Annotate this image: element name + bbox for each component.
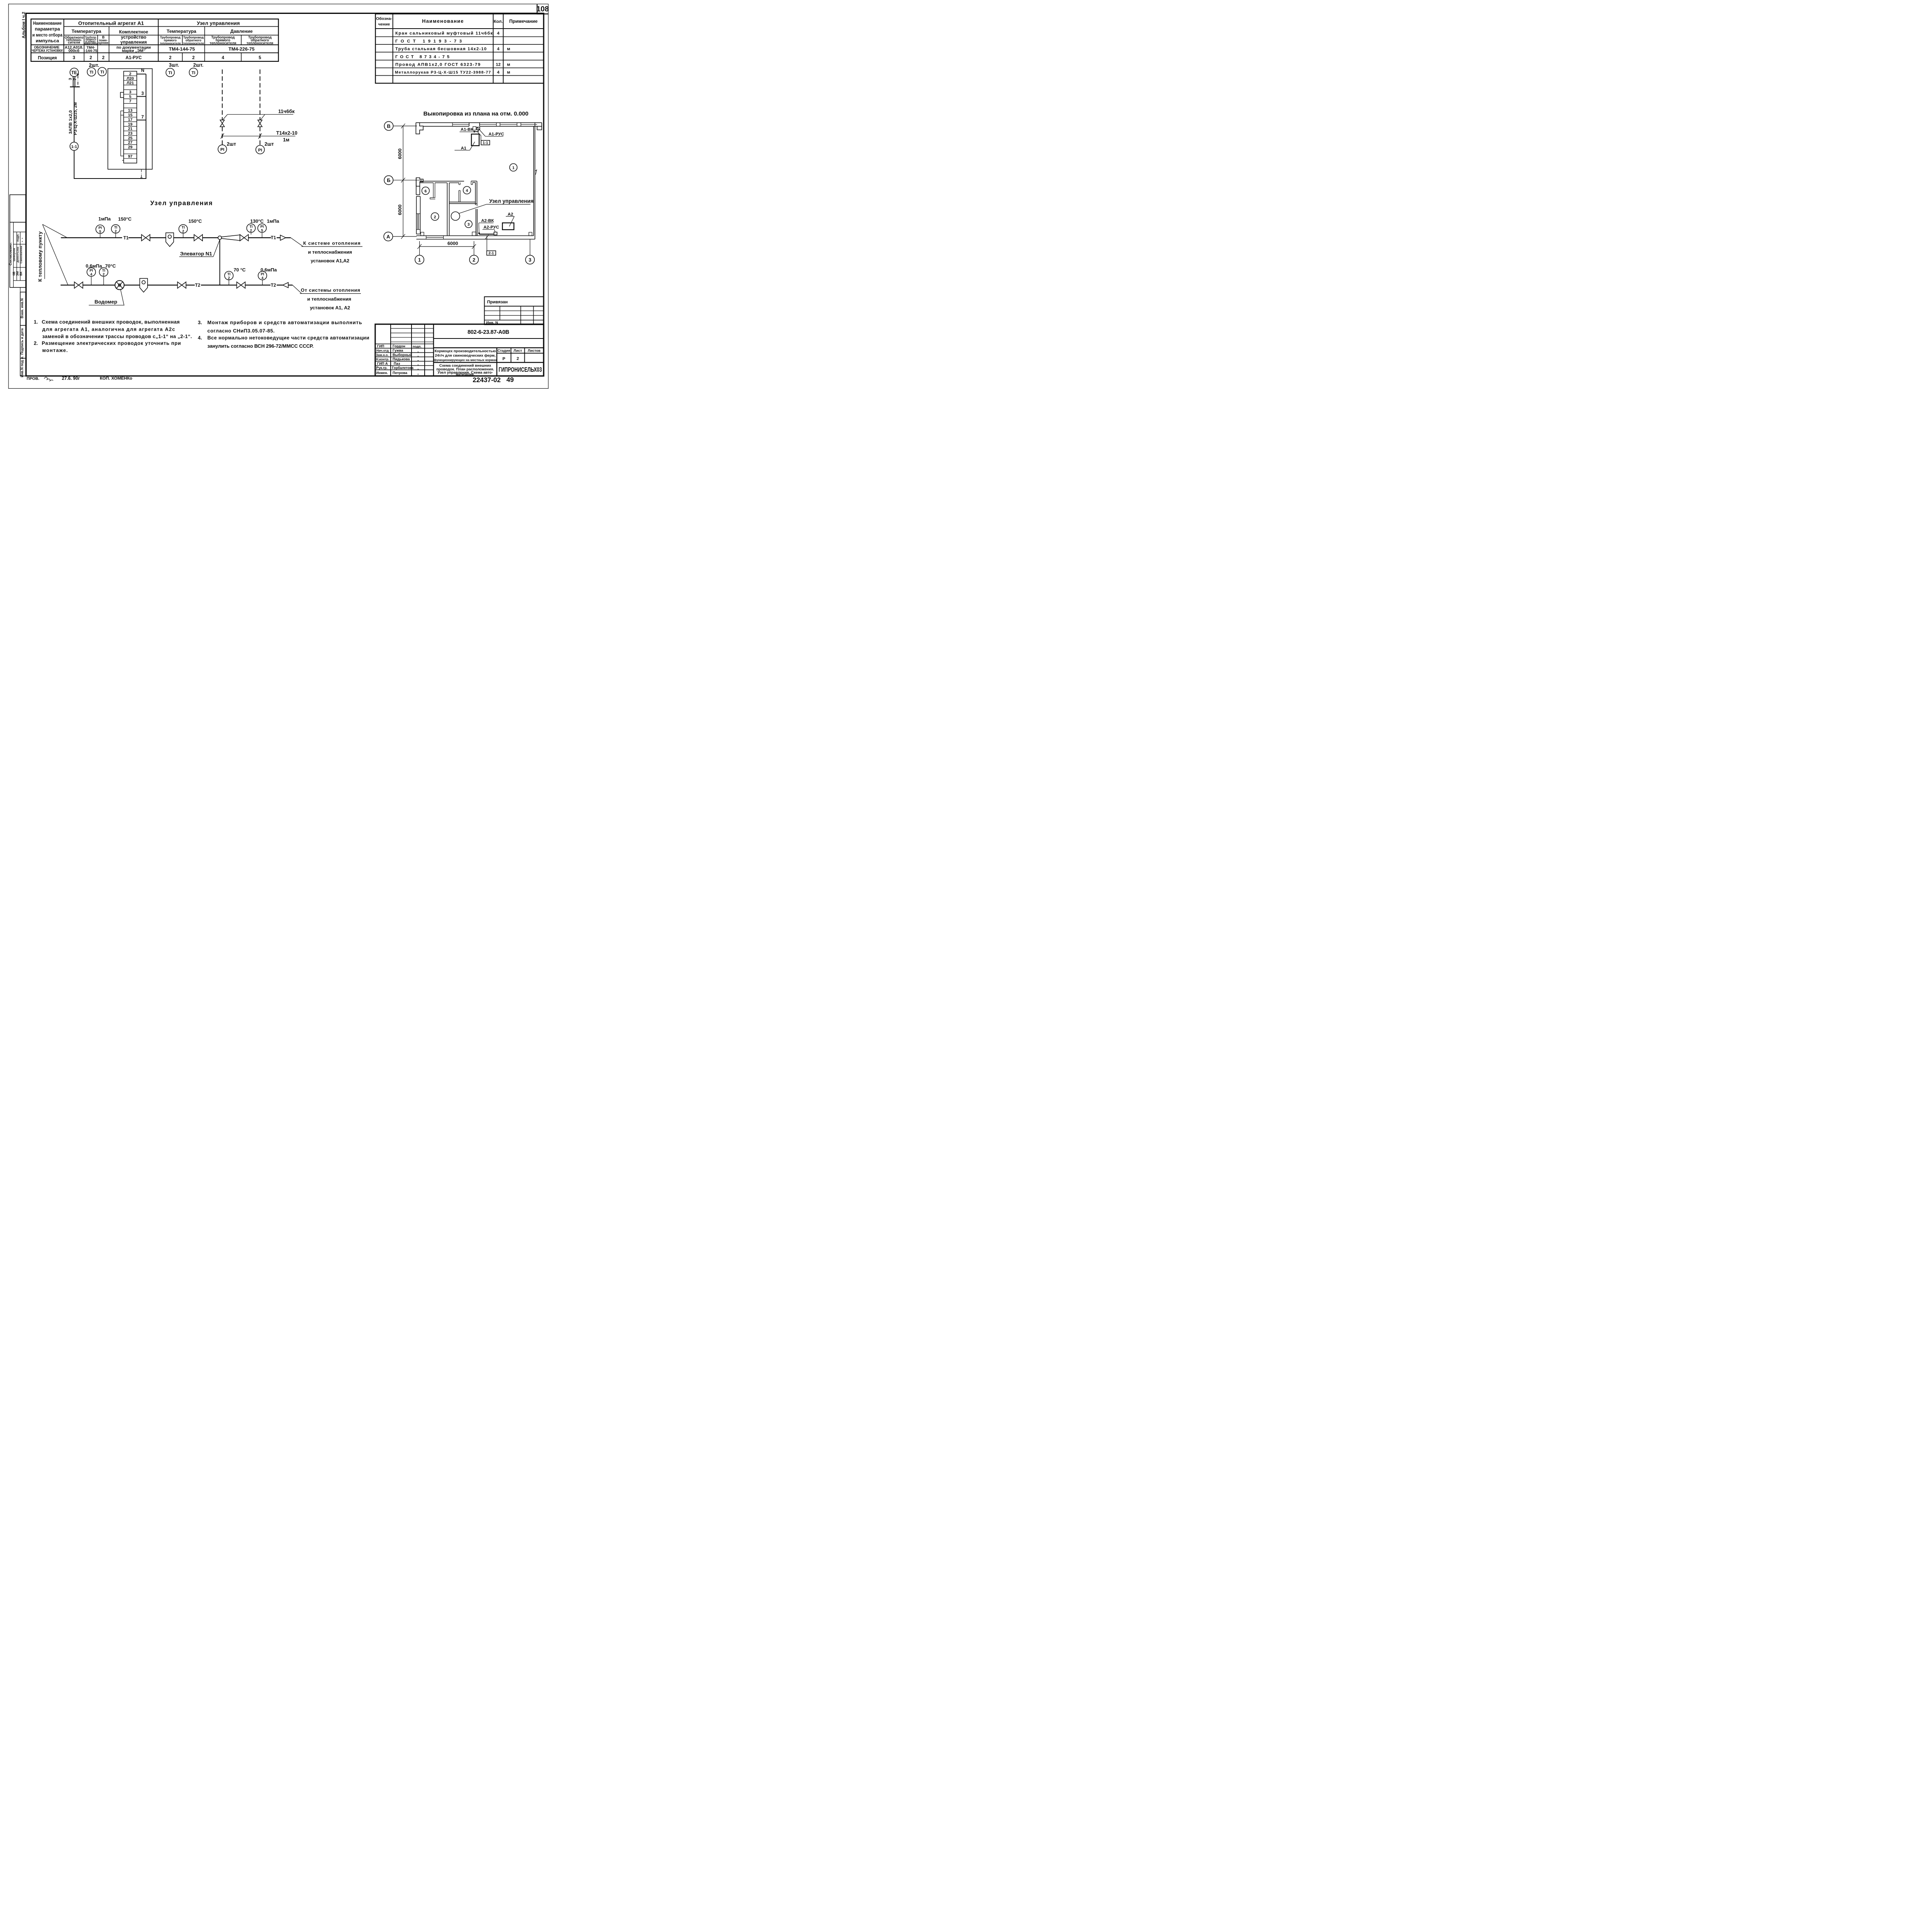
svg-text:теплоносителя: теплоносителя: [183, 41, 204, 45]
instrument PI 2: [256, 145, 264, 154]
svg-text:2: 2: [192, 55, 194, 60]
svg-text:От системы отопления: От системы отопления: [301, 287, 360, 293]
description cell: [495, 348, 499, 376]
svg-text:PI: PI: [90, 269, 93, 272]
route box 2-1: [487, 251, 496, 255]
pipe T1: [61, 235, 122, 240]
svg-text:Выкопировка из плана на отм. 0: Выкопировка из плана на отм. 0.000: [423, 111, 529, 117]
svg-text:3: 3: [529, 257, 531, 263]
svg-text:4: 4: [222, 55, 224, 60]
svg-text:м: м: [507, 70, 510, 75]
instrument PI5 right: [258, 224, 266, 232]
svg-text:PI: PI: [258, 148, 262, 153]
svg-text:подп.: подп.: [413, 345, 422, 349]
svg-text:25: 25: [128, 136, 133, 140]
svg-text:„: „: [417, 367, 419, 370]
svg-text:23: 23: [128, 131, 133, 136]
svg-text:Стадия: Стадия: [497, 349, 510, 352]
svg-text:7: 7: [73, 78, 77, 80]
svg-text:Кормоцех производительностью: Кормоцех производительностью: [435, 349, 496, 354]
room number 4: [463, 186, 471, 194]
svg-text:Схема соединений внешних прово: Схема соединений внешних проводок, выпол…: [42, 319, 180, 325]
room4 door stub: [459, 182, 460, 184]
svg-text:Б: Б: [387, 177, 390, 183]
leader to system: [291, 238, 303, 247]
north wall band: [416, 121, 542, 124]
svg-text:А2: А2: [508, 212, 513, 217]
page number box 108: [537, 4, 548, 14]
svg-text:000сб: 000сб: [68, 48, 79, 53]
svg-text:2: 2: [90, 55, 92, 60]
mud filter T1: [166, 233, 173, 247]
svg-text:А2-РУС: А2-РУС: [483, 225, 499, 230]
svg-text:Выборный: Выборный: [393, 353, 412, 357]
control unit circle: [451, 212, 459, 220]
valve T2-3: [237, 282, 245, 288]
svg-text:1-1: 1-1: [71, 145, 77, 149]
svg-text:Примечание: Примечание: [509, 19, 538, 24]
svg-text:ТМ4-144-75: ТМ4-144-75: [169, 46, 195, 52]
svg-text:для агрегата А1, аналогична дл: для агрегата А1, аналогична для агрегата…: [42, 326, 175, 332]
terminal strip: [124, 71, 137, 163]
svg-text:4.: 4.: [198, 335, 202, 341]
axis line A: [393, 235, 417, 238]
svg-text:Обозна-: Обозна-: [376, 17, 392, 21]
svg-text:функционирующих на местных кор: функционирующих на местных кормах: [434, 358, 497, 362]
left margin upper box: [10, 195, 26, 222]
svg-text:6: 6: [425, 189, 427, 194]
svg-text:Согласовано:: Согласовано:: [9, 242, 12, 265]
svg-text:3: 3: [68, 78, 73, 80]
pier marks on south wall: [421, 232, 424, 236]
bottom dim line: [420, 245, 474, 248]
svg-text:Наименование: Наименование: [422, 18, 464, 24]
svg-text:Кол.: Кол.: [494, 19, 503, 24]
svg-text:3: 3: [468, 223, 470, 227]
svg-text:ВК: ВК: [19, 272, 23, 276]
NW corner pier: [416, 122, 423, 134]
svg-text:1-1: 1-1: [483, 141, 488, 145]
svg-text:5: 5: [129, 95, 131, 99]
svg-text:и место отбора: и место отбора: [32, 32, 63, 37]
svg-text:ЧЕРТЕЖА УСТАНОВКИ: ЧЕРТЕЖА УСТАНОВКИ: [32, 49, 63, 53]
dash-dot spare wire: [140, 170, 143, 177]
instrument PI5 supply: [96, 225, 104, 233]
svg-text:импульса: импульса: [36, 38, 59, 44]
TE terminal dot: [77, 74, 79, 75]
svg-text:2: 2: [102, 55, 104, 60]
svg-text:5: 5: [259, 55, 261, 60]
svg-text:7: 7: [129, 99, 131, 104]
svg-text:130°С: 130°С: [250, 218, 264, 224]
svg-text:Температура: Температура: [167, 29, 196, 34]
svg-text:Труба стальная бесшовная 14х2: Труба стальная бесшовная 14х2-10: [395, 47, 486, 51]
svg-text:Давление: Давление: [230, 29, 253, 34]
partition room6 right: [430, 183, 435, 199]
pipe 2 below valve: [258, 127, 262, 145]
room number 3: [465, 220, 472, 228]
A1 wiring dot: [473, 131, 475, 132]
svg-text:устройство: устройство: [121, 35, 146, 40]
room number 2: [431, 213, 439, 220]
feeder fan lines: [43, 224, 67, 238]
svg-text:Петрова: Петрова: [393, 371, 408, 375]
svg-text:TI: TI: [102, 269, 105, 272]
svg-text:19: 19: [128, 122, 133, 127]
svg-text:„: „: [19, 238, 23, 239]
svg-text:2: 2: [517, 357, 519, 361]
svg-text:Л21: Л21: [127, 81, 134, 85]
svg-text:3АПВ 1х2,0: 3АПВ 1х2,0: [68, 110, 73, 134]
svg-text:„: „: [417, 349, 419, 353]
approval block: [10, 222, 26, 287]
column lines: [62, 19, 66, 61]
svg-text:4: 4: [466, 189, 468, 193]
instrument PI4 right: [258, 271, 267, 280]
vzam inv box: [20, 292, 26, 325]
impulse pipe 2 dashed: [258, 70, 262, 120]
svg-text:Нач.отд: Нач.отд: [376, 349, 389, 352]
svg-text:занулить согласно ВСН 296-72/: занулить согласно ВСН 296-72/ММСС СССР.: [207, 343, 314, 349]
elevator label: [213, 240, 220, 257]
wire 3 stub: [137, 95, 146, 99]
svg-text:В: В: [387, 123, 390, 129]
axis extensions: [418, 241, 421, 255]
svg-text:4: 4: [497, 31, 500, 36]
equipment A2: [502, 223, 514, 230]
svg-text:Монтаж приборов и средств авто: Монтаж приборов и средств автоматизации …: [207, 320, 362, 325]
svg-text:2шт: 2шт: [227, 141, 236, 147]
svg-text:TI: TI: [90, 70, 94, 75]
svg-text:сителя: сителя: [68, 41, 80, 44]
document number: [434, 337, 544, 340]
svg-text:27.6. 90г: 27.6. 90г: [62, 376, 80, 381]
svg-text:Т1: Т1: [271, 235, 276, 240]
svg-text:2: 2: [129, 72, 131, 76]
cable run down from TE: [72, 87, 76, 142]
svg-text:марки „ЭМ“: марки „ЭМ“: [122, 49, 146, 53]
svg-text:PI: PI: [261, 272, 264, 276]
svg-text:97: 97: [128, 155, 133, 159]
elevator drop line: [218, 240, 222, 285]
svg-text:„: „: [417, 362, 419, 366]
svg-text:Узел управления: Узел управления: [150, 200, 213, 207]
svg-text:Узел управления: Узел управления: [197, 20, 240, 26]
svg-text:Схема соединений внешних: Схема соединений внешних: [439, 364, 492, 368]
svg-text:Т1: Т1: [123, 236, 129, 241]
svg-text:5: 5: [99, 230, 101, 233]
valve T2-1: [74, 282, 83, 288]
svg-text:17: 17: [128, 118, 133, 122]
route 2-1 drop: [486, 236, 488, 251]
svg-text:4: 4: [262, 276, 264, 280]
flow arrow T1: [280, 235, 286, 240]
svg-text:К тепловому пункту: К тепловому пункту: [37, 231, 43, 282]
svg-text:6000: 6000: [397, 204, 403, 215]
water meter label: [121, 289, 124, 305]
svg-text:1.: 1.: [34, 319, 38, 325]
svg-text:А: А: [386, 234, 390, 240]
room number 1: [510, 163, 517, 171]
svg-text:Гужва: Гужва: [393, 349, 403, 352]
svg-text:Т2: Т2: [271, 283, 276, 288]
svg-text:А2-ВК: А2-ВК: [481, 218, 494, 223]
room top wall: [420, 180, 464, 183]
svg-text:6000: 6000: [447, 241, 458, 246]
inv podl box: [20, 358, 26, 376]
privyazan block: [485, 297, 544, 325]
valve T1-2: [194, 235, 202, 241]
svg-text:3: 3: [129, 90, 131, 94]
cabinet enclosure: [108, 69, 152, 169]
svg-text:КОП. ХОМЕНКо: КОП. ХОМЕНКо: [100, 376, 132, 381]
svg-text:27: 27: [128, 141, 133, 145]
svg-text:6000: 6000: [397, 148, 403, 159]
svg-text:2: 2: [228, 276, 230, 280]
dash-dot drop from TE: [77, 75, 80, 87]
svg-text:Инв.N под л.: Инв.N под л.: [20, 356, 24, 378]
svg-text:ГИП А: ГИП А: [377, 362, 388, 366]
room4 right wall: [474, 182, 477, 205]
west wall: [415, 196, 418, 234]
pipe 1 below valve: [220, 127, 224, 145]
svg-text:TI: TI: [192, 71, 196, 75]
svg-text:Р: Р: [502, 357, 505, 361]
svg-text:Т2: Т2: [195, 283, 201, 288]
leader from system: [293, 285, 302, 294]
svg-text:2.: 2.: [34, 340, 38, 346]
svg-text:2-1: 2-1: [488, 251, 494, 255]
svg-text:установок А1,А2: установок А1,А2: [311, 258, 349, 264]
pipe T2: [61, 283, 75, 287]
svg-text:теплоносителя: теплоносителя: [247, 41, 273, 45]
valve V2 on pipe 2: [258, 120, 262, 127]
svg-text:Лист: Лист: [514, 349, 522, 352]
svg-text:Н.контр.: Н.контр.: [376, 357, 389, 361]
svg-text:PI: PI: [99, 226, 102, 230]
equipment A1: [471, 134, 479, 146]
svg-text:2: 2: [250, 229, 252, 233]
flow arrow T2: [283, 282, 288, 288]
leader line valves: [223, 114, 228, 120]
svg-text:4: 4: [497, 70, 500, 75]
svg-text:щении: щении: [98, 41, 108, 45]
instrument TI2 supply: [111, 224, 120, 233]
svg-text:0,6мПа: 0,6мПа: [260, 267, 277, 272]
svg-text:„: „: [417, 372, 419, 375]
svg-text:3шт.: 3шт.: [169, 62, 179, 68]
svg-text:70°С: 70°С: [105, 263, 116, 269]
svg-text:108: 108: [536, 5, 549, 14]
signature rows: [375, 342, 434, 345]
svg-text:2: 2: [434, 215, 436, 219]
jumper bracket cells 13-97: [121, 111, 124, 160]
upper empty rows: [391, 327, 434, 330]
water meter: [115, 281, 124, 290]
axis circle 3: [526, 255, 534, 264]
label line T14x2-10: [221, 135, 295, 137]
svg-text:и теплоснабжения: и теплоснабжения: [307, 296, 351, 302]
svg-text:PI: PI: [260, 225, 264, 229]
svg-text:„: „: [417, 358, 419, 361]
svg-text:теплоносителя: теплоносителя: [209, 41, 236, 45]
valve T1-3: [240, 235, 248, 241]
svg-text:„: „: [417, 354, 419, 357]
svg-text:„: „: [19, 241, 23, 242]
svg-text:Комплектное: Комплектное: [119, 29, 148, 34]
svg-text:м: м: [507, 62, 510, 67]
instrument TI remote 2: [189, 68, 198, 77]
svg-text:1: 1: [418, 257, 421, 263]
axis circle V: [384, 121, 393, 130]
svg-text:Л20: Л20: [127, 77, 134, 81]
svg-text:TI: TI: [227, 272, 230, 276]
label line 11ch6bk: [228, 113, 293, 116]
instrument TI2 mid: [179, 224, 187, 233]
svg-text:TI: TI: [100, 70, 104, 75]
svg-text:-144-75: -144-75: [84, 49, 97, 53]
A2-RUS box: [494, 232, 497, 235]
axis line V: [393, 125, 417, 127]
svg-text:TI: TI: [168, 71, 172, 75]
svg-text:1мПа: 1мПа: [99, 216, 111, 221]
B axis pilaster: [416, 178, 423, 186]
svg-text:Пидькова: Пидькова: [393, 357, 410, 361]
stage cells: [509, 348, 513, 362]
svg-text:150°С: 150°С: [118, 216, 132, 222]
svg-text:3: 3: [141, 91, 144, 96]
control unit leader: [459, 204, 486, 214]
svg-text:1мПа: 1мПа: [267, 218, 279, 224]
svg-text:24т/ч для свиноводческих ферм,: 24т/ч для свиноводческих ферм,: [435, 354, 495, 358]
svg-text:N: N: [141, 68, 144, 73]
svg-text:управления: управления: [121, 40, 147, 45]
svg-text:21: 21: [128, 127, 133, 131]
spacer cell: [20, 287, 26, 292]
svg-text:802-6-23.87-А0В: 802-6-23.87-А0В: [468, 329, 509, 335]
svg-text:Провод АПВ1х2,0 ГОСТ 6323-79: Провод АПВ1х2,0 ГОСТ 6323-79: [395, 62, 480, 67]
NE corner pier: [537, 122, 542, 130]
row lines: [64, 25, 278, 28]
svg-text:теплоносителя: теплоносителя: [160, 41, 181, 45]
svg-text:А1-ВК: А1-ВК: [461, 128, 473, 132]
svg-text:1: 1: [512, 166, 515, 170]
vertical dimension chain: [402, 126, 404, 236]
svg-text:TI: TI: [182, 226, 185, 230]
svg-text:2: 2: [169, 55, 171, 60]
svg-text:3ам.н.о.: 3ам.н.о.: [376, 353, 389, 357]
svg-text:0В: 0В: [12, 272, 16, 276]
jumper bracket cells 3-5: [121, 92, 124, 97]
svg-text:ТМ4-226-75: ТМ4-226-75: [228, 46, 255, 52]
outer sheet border: [9, 4, 548, 388]
svg-text:Температура: Температура: [71, 29, 101, 34]
section arrow mark: [535, 170, 537, 175]
svg-text:согласно СНиП3.05.07-85.: согласно СНиП3.05.07-85.: [207, 328, 275, 333]
svg-text:подп.: подп.: [16, 234, 20, 242]
route mark 1-1: [70, 142, 78, 151]
TE sensor pocket: [71, 77, 75, 87]
svg-text:Гордон: Гордон: [393, 344, 405, 348]
impulse pipe 1 dashed: [220, 70, 224, 120]
svg-text:чение: чение: [378, 22, 390, 27]
svg-text:Дементьева: Дементьева: [17, 247, 19, 262]
svg-text:м: м: [507, 47, 510, 51]
parameter table frame: [31, 19, 278, 61]
parts list table frame: [376, 14, 544, 83]
valve T2-2: [177, 282, 186, 288]
svg-text:Инжен.: Инжен.: [376, 371, 388, 375]
podpis data box: [20, 325, 26, 358]
svg-text:7: 7: [141, 115, 144, 120]
axis circle B: [384, 176, 393, 185]
svg-text:Самохвалова: Самохвалова: [20, 246, 23, 264]
instrument PI4 return: [87, 268, 95, 276]
elevator N1: [218, 236, 221, 240]
svg-text:А1-РУС: А1-РУС: [488, 132, 504, 136]
svg-text:ЭМ: ЭМ: [16, 271, 19, 276]
svg-text:TE: TE: [71, 70, 77, 75]
svg-text:TI: TI: [250, 225, 253, 229]
svg-text:ПРОВ.: ПРОВ.: [27, 377, 39, 381]
instrument TE (thermocouple): [70, 68, 78, 77]
svg-text:TI: TI: [114, 226, 117, 230]
instrument TI2 return: [99, 268, 108, 276]
wire 7 stub: [137, 118, 146, 122]
svg-text:Шевкунов: Шевкунов: [13, 248, 16, 261]
unit A1-VK box: [477, 127, 480, 130]
svg-text:Подпись и дата: Подпись и дата: [20, 328, 24, 355]
inner drawing frame: [26, 13, 544, 376]
instrument TI remote 1: [166, 68, 174, 77]
svg-text:Узел управления: Узел управления: [489, 198, 534, 204]
svg-text:0,6мПа: 0,6мПа: [86, 263, 102, 269]
svg-text:А1-РУС: А1-РУС: [126, 55, 142, 60]
svg-text:2: 2: [115, 230, 117, 233]
axis circle 1: [415, 255, 424, 264]
instrument TI2 right: [247, 224, 255, 232]
room4 left partition: [459, 190, 460, 202]
svg-text:2шт.: 2шт.: [89, 62, 99, 68]
svg-text:29: 29: [128, 145, 133, 150]
svg-text:22437-02: 22437-02: [473, 376, 501, 384]
svg-text:матизации.: матизации.: [456, 372, 475, 376]
svg-text:Водомер: Водомер: [95, 299, 117, 305]
svg-text:Листов: Листов: [528, 349, 541, 352]
svg-text:Паз: Паз: [394, 362, 400, 366]
tick marks: [221, 133, 224, 139]
svg-text:11ч6бк: 11ч6бк: [278, 108, 295, 114]
svg-text:5: 5: [261, 229, 263, 233]
svg-text:Размещение электрических прово: Размещение электрических проводок уточни…: [42, 340, 181, 346]
room4 bottom wall: [449, 201, 476, 204]
main interior wall: [446, 183, 449, 236]
svg-text:Рук.гр.: Рук.гр.: [376, 366, 388, 370]
valve V1 on pipe 1: [220, 120, 224, 127]
svg-text:Элеватор N1: Элеватор N1: [180, 251, 212, 257]
svg-text:4: 4: [90, 272, 93, 276]
axis circle A: [384, 232, 393, 241]
wire N stub: [137, 72, 146, 76]
mud filter T2: [140, 279, 148, 293]
svg-text:3.: 3.: [198, 320, 202, 325]
svg-text:Р3-Ц-Х-Ш15, 2м: Р3-Ц-Х-Ш15, 2м: [73, 102, 78, 135]
svg-text:2: 2: [103, 272, 105, 276]
instrument PI 1: [218, 145, 226, 153]
svg-text:ГИП: ГИП: [377, 344, 384, 348]
svg-text:Наименование: Наименование: [33, 20, 62, 26]
east wall: [532, 126, 535, 236]
